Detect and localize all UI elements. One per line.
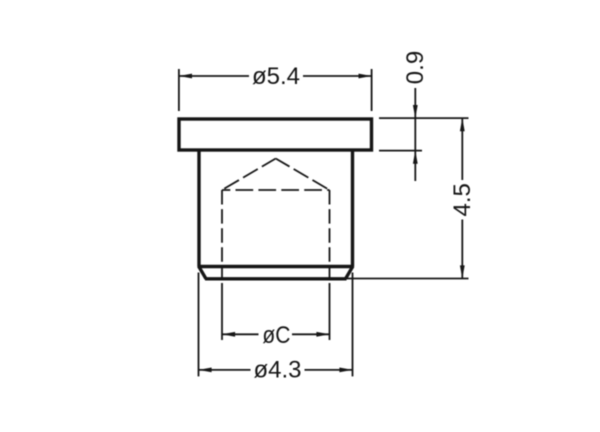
dim line C right segment xyxy=(292,333,330,335)
wire right chamfer xyxy=(346,266,353,279)
arrow down at flange top (0.9) xyxy=(413,105,418,118)
arrow left of 5.4 xyxy=(179,74,192,79)
arrow up at top of 4.5 xyxy=(460,118,465,131)
hidden hole top edge (dashed) xyxy=(222,189,330,191)
dim ext line left for C xyxy=(221,283,223,340)
wire left chamfer xyxy=(199,266,206,279)
dim ext line right for C xyxy=(329,283,331,340)
dim line 4.3 right segment xyxy=(305,369,353,371)
dim line 4.5 upper segment xyxy=(461,118,463,180)
arrow right of C xyxy=(316,332,329,337)
dim ext line flange bottom (for 0.9) xyxy=(379,150,422,152)
dim ext line right for 5.4 xyxy=(371,69,373,111)
hidden hole left wall (dashed) xyxy=(221,190,223,279)
wire bottom face xyxy=(205,277,347,280)
dim line 4.5 lower segment xyxy=(461,220,463,279)
arrow left of C xyxy=(222,332,235,337)
wire left body wall xyxy=(197,151,200,267)
dim line 5.4 left segment xyxy=(179,75,249,77)
dim line 5.4 right segment xyxy=(303,75,372,77)
arrow left of 4.3 xyxy=(199,368,212,373)
dim line 0.9 upper tail xyxy=(414,88,416,151)
dim line C left segment xyxy=(222,333,259,335)
dim ext line flange top (for 0.9 and 4.5) xyxy=(379,117,469,119)
hidden hole cone right diagonal (dashed) xyxy=(276,159,330,191)
svg-text:ø4.3: ø4.3 xyxy=(253,357,301,384)
arrow right of 4.3 xyxy=(339,368,352,373)
hidden hole cone left diagonal (dashed) xyxy=(222,159,276,191)
svg-text:ø5.4: ø5.4 xyxy=(252,63,300,90)
arrow right of 5.4 xyxy=(359,74,372,79)
wire bottom inner edge xyxy=(198,265,354,268)
dim line 0.9 lower tail xyxy=(414,151,416,181)
dim ext line left for 5.4 xyxy=(178,69,180,111)
hidden hole right wall (dashed) xyxy=(329,190,331,279)
svg-text:0.9: 0.9 xyxy=(402,51,429,84)
arrow up at flange bottom (0.9) xyxy=(413,151,418,164)
wire right body wall xyxy=(351,151,354,267)
dim line 4.3 left segment xyxy=(199,369,251,371)
dim ext line left for 4.3 xyxy=(198,273,200,377)
svg-text:øC: øC xyxy=(262,322,290,349)
dim ext line right for 4.3 xyxy=(352,273,354,377)
dim ext line part bottom (for 4.5) xyxy=(346,278,469,280)
flange top rectangle (part outline) xyxy=(179,119,372,150)
arrow down at bottom of 4.5 xyxy=(460,265,465,278)
svg-text:4.5: 4.5 xyxy=(449,183,476,216)
